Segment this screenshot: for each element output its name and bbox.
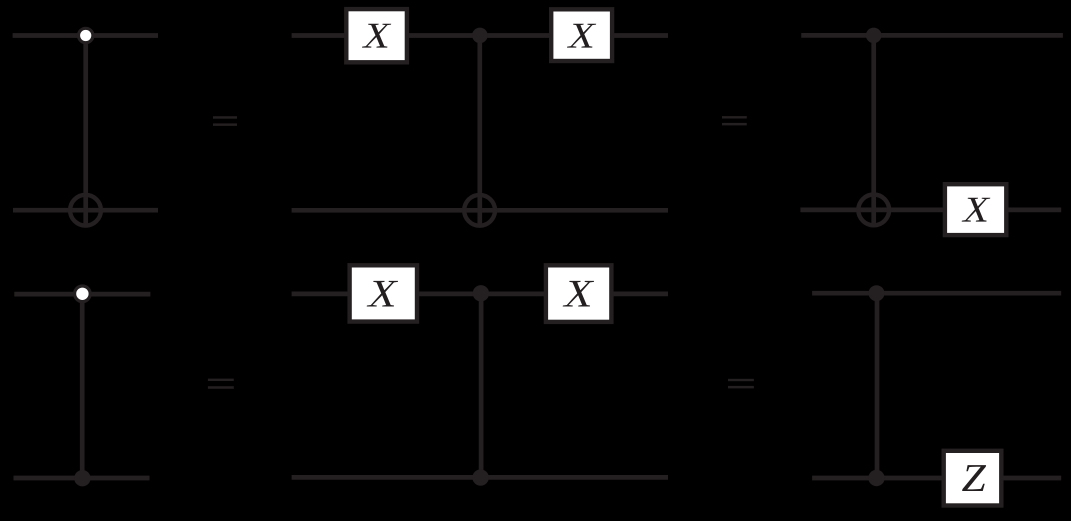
equals sign 1: [213, 116, 237, 126]
wire vertical control-target link circuit 1: [83, 36, 88, 228]
gate X1 box (circuit 2, first X): [346, 9, 407, 62]
gate X2 box (circuit 2, second X): [551, 9, 612, 61]
filled control dot circuit 6 (bottom qubit): [868, 470, 884, 486]
wire vertical control-target link circuit 2: [477, 36, 482, 228]
wire q1 circuit 1 (top-left): [13, 208, 158, 213]
wire q0 circuit 1 (top-left): [13, 33, 158, 38]
open (negative) control circuit 4: [75, 286, 91, 302]
CNOT target (XOR) circuit 1: [70, 195, 101, 226]
gate Z box (circuit 6, bottom-line Z): [944, 451, 1002, 506]
wire q0 circuit 5 (bottom-middle): [292, 292, 668, 297]
gate X5 box (circuit 5, second X): [546, 265, 612, 322]
gate X4 box (circuit 5, first X): [350, 265, 417, 321]
wire q0 circuit 3 (top-right): [801, 33, 1063, 38]
wire q0 circuit 4 (bottom-left): [14, 292, 150, 297]
wire vertical control-control link circuit 4: [80, 294, 85, 478]
equals sign 3: [208, 379, 234, 389]
filled control dot circuit 5 (bottom qubit): [472, 469, 488, 485]
wire q1 circuit 6 (bottom-right): [812, 476, 1061, 481]
filled control dot circuit 5 (top qubit): [473, 285, 489, 301]
wire q0 circuit 2 (top-middle): [292, 33, 668, 38]
wire vertical control-target link circuit 3: [871, 35, 876, 227]
wire q1 circuit 4 (bottom-left): [14, 476, 150, 481]
open (negative) control circuit 1: [79, 28, 93, 42]
CNOT target (XOR) circuit 2: [464, 195, 495, 226]
filled control dot circuit 4 (bottom qubit): [74, 470, 90, 486]
filled control dot circuit 2: [472, 28, 488, 44]
filled control dot circuit 3: [866, 28, 882, 44]
filled control dot circuit 6 (top qubit): [869, 285, 885, 301]
wire q1 circuit 3 (top-right): [800, 208, 1061, 213]
wire q0 circuit 6 (bottom-right): [812, 291, 1061, 296]
equals sign 4: [728, 379, 754, 389]
wire q1 circuit 2 (top-middle): [292, 208, 668, 213]
wire q1 circuit 5 (bottom-middle): [292, 475, 668, 480]
wire vertical control-control link circuit 5: [479, 294, 484, 478]
equals sign 2: [722, 116, 747, 125]
gate X3 box (circuit 3, target-line X): [945, 184, 1006, 235]
wire vertical control-control link circuit 6: [875, 293, 880, 478]
CNOT target (XOR) circuit 3: [858, 195, 889, 226]
